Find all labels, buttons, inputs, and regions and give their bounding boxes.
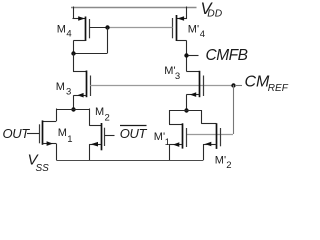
svg-text:1: 1 — [165, 137, 170, 148]
label M2 — [95, 106, 110, 124]
node M'3 source / right pair drains — [184, 108, 188, 112]
svg-text:4: 4 — [200, 29, 205, 40]
node M4 gate/drain junction — [105, 25, 109, 29]
svg-text:2: 2 — [105, 113, 110, 124]
label M'4 — [188, 24, 205, 40]
label M'3 — [164, 65, 180, 82]
svg-text:2: 2 — [226, 160, 231, 171]
svg-text:M: M — [58, 127, 67, 139]
svg-text:CM: CM — [245, 74, 271, 91]
transistor M'4 — [173, 7, 187, 56]
net label CM_REF — [245, 74, 289, 94]
svg-text:M': M' — [154, 131, 165, 143]
wire diode connection M4 — [74, 27, 108, 53]
wire CM_REF stub — [235, 85, 242, 87]
wire CMFB stub — [188, 55, 198, 57]
svg-text:3: 3 — [66, 87, 71, 98]
svg-text:M: M — [56, 81, 65, 93]
svg-text:OUT: OUT — [120, 126, 148, 141]
node M3 source / left pair drains — [71, 107, 75, 111]
svg-text:M': M' — [188, 24, 199, 36]
wire VDD rail — [71, 7, 197, 9]
wire M'4 drain to M'3 drain — [186, 55, 188, 71]
svg-text:REF: REF — [268, 83, 289, 94]
label M'2 — [215, 154, 232, 171]
svg-text:M: M — [57, 24, 66, 36]
net label OUT-bar — [120, 126, 148, 142]
node M4 drain / M3 drain — [71, 51, 75, 55]
svg-text:1: 1 — [67, 134, 72, 145]
wire left pair drain rail — [56, 109, 89, 111]
transistor M2 — [89, 109, 114, 161]
label M4 — [57, 24, 72, 40]
wire gate bus M3-M'3 to CM_REF — [90, 85, 233, 87]
wire gate bus M4-M'4 — [107, 27, 173, 29]
svg-text:CMFB: CMFB — [206, 47, 248, 64]
net label V_SS — [28, 152, 50, 175]
transistor M1 — [27, 109, 57, 161]
svg-text:SS: SS — [36, 163, 50, 174]
label M1 — [58, 127, 73, 145]
node CM_REF — [231, 83, 235, 87]
svg-text:M': M' — [164, 65, 175, 77]
wire VSS rail — [56, 160, 203, 162]
label M3 — [56, 81, 71, 98]
svg-text:M': M' — [215, 154, 226, 166]
svg-text:4: 4 — [66, 28, 71, 39]
svg-text:3: 3 — [175, 71, 180, 82]
transistor M'2 — [201, 110, 220, 160]
net label V_DD — [201, 0, 223, 19]
transistor M3 — [73, 54, 91, 110]
transistor M'1 — [169, 110, 187, 160]
wire CM_REF descent — [186, 85, 233, 135]
svg-text:M: M — [95, 106, 104, 118]
transistor M4 — [73, 7, 108, 55]
svg-text:OUT: OUT — [3, 126, 31, 141]
svg-text:DD: DD — [207, 8, 222, 19]
transistor M'3 — [186, 71, 203, 111]
label M'1 — [154, 131, 170, 148]
node CMFB — [184, 53, 188, 57]
wire right pair drain rail — [169, 110, 201, 112]
